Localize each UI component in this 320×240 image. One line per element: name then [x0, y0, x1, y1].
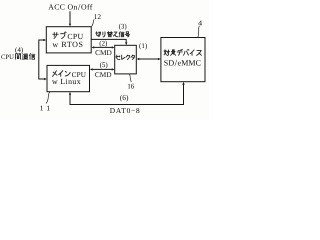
svg-text:CMD: CMD: [95, 70, 112, 79]
leader 16: [130, 74, 132, 81]
target device text line1: [164, 50, 170, 56]
block main CPU 11: [47, 65, 90, 91]
arrowhead ACC down: [69, 24, 71, 27]
svg-text:(4): (4): [15, 46, 24, 54]
arrowhead (1) right: [158, 58, 161, 60]
svg-text:CPU: CPU: [1, 54, 14, 61]
label switching-signal kana: [96, 32, 101, 37]
arrowhead (4) into sub CPU: [43, 39, 46, 41]
arrowhead (2) right: [112, 46, 115, 48]
wire ACC On/Off into sub CPU: [69, 11, 71, 24]
arrowhead (4) into main CPU: [44, 78, 47, 80]
wire (1) selector to target device: [139, 58, 159, 60]
svg-text:16: 16: [127, 82, 135, 90]
wire (6) DAT0-8 bus: [70, 84, 184, 105]
block sub CPU 12: [46, 27, 91, 53]
arrowhead (1) left: [137, 58, 140, 60]
selector text: [116, 55, 120, 59]
main CPU text line1: [52, 71, 57, 77]
svg-text:(2): (2): [99, 40, 108, 48]
leader 4: [198, 26, 199, 37]
svg-text:(1): (1): [139, 42, 148, 50]
svg-text:(6): (6): [120, 93, 129, 102]
svg-text:CMD: CMD: [95, 48, 112, 57]
leader 12: [92, 20, 94, 27]
sub CPU text line1: [53, 32, 59, 38]
wire (5) CMD main CPU to selector: [92, 68, 113, 70]
arrowhead bus into target device: [182, 82, 184, 85]
svg-text:(5): (5): [100, 61, 109, 69]
arrowhead bus into main CPU: [69, 92, 71, 95]
leader 11: [46, 92, 50, 103]
svg-text:(3): (3): [119, 22, 128, 30]
wire (3) switching signal: [91, 39, 126, 43]
svg-text:ACC On/Off: ACC On/Off: [48, 2, 92, 12]
svg-text:DAT0−8: DAT0−8: [110, 106, 141, 115]
arrowhead (5) left: [90, 68, 93, 70]
wire (4) CPU inter-communication: [39, 40, 45, 79]
arrowhead (5) right: [112, 68, 115, 70]
block target device 4: [161, 38, 205, 82]
svg-text:SD/eMMC: SD/eMMC: [164, 59, 201, 70]
svg-text:4: 4: [198, 19, 202, 28]
svg-text:w RTOS: w RTOS: [52, 40, 83, 49]
svg-text:11: 11: [40, 103, 54, 112]
wire (2) CMD sub CPU to selector: [94, 46, 113, 48]
svg-text:12: 12: [94, 13, 102, 21]
arrowhead (2) left: [92, 46, 95, 48]
svg-text:w Linux: w Linux: [52, 77, 81, 86]
block selector 16: [115, 45, 137, 74]
arrowhead (3) into selector top: [125, 42, 127, 45]
